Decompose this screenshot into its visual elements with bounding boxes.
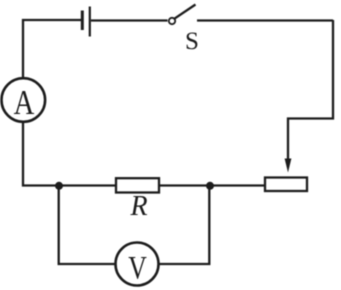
svg-text:V: V (128, 251, 147, 287)
svg-text:S: S (185, 28, 199, 55)
svg-text:R: R (129, 191, 147, 222)
svg-text:A: A (14, 82, 35, 121)
